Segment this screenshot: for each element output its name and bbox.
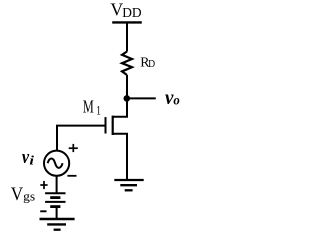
source vi sine wave	[48, 159, 63, 168]
ground below battery Vgs: bottom bar	[54, 229, 61, 231]
wire VDD rail to resistor RD top	[126, 22, 128, 51]
power supply VDD rail bar	[112, 21, 142, 23]
node drain junction dot	[124, 95, 131, 102]
plus sign at vi source top	[69, 147, 78, 149]
battery Vgs plate short bottom	[50, 205, 60, 208]
ground at M1 source: bottom bar	[125, 189, 133, 191]
plus sign at battery Vgs top	[40, 184, 47, 186]
minus sign at vi source bottom	[67, 175, 76, 177]
wire battery Vgs bottom to ground	[56, 207, 58, 219]
wire vi source bottom to battery Vgs	[56, 176, 58, 193]
transistor M1 drain lead	[113, 98, 127, 116]
source vi AC symbol circle	[44, 151, 69, 176]
battery Vgs plate short upper	[50, 196, 60, 199]
ground below battery Vgs: middle bar	[47, 223, 66, 225]
resistor RD	[122, 52, 132, 76]
ground at M1 source: top bar	[114, 179, 143, 181]
transistor M1 channel bar	[112, 116, 114, 135]
battery Vgs plate long lower	[45, 201, 65, 203]
wire resistor RD bottom to drain node	[126, 75, 128, 98]
transistor M1 gate bar	[105, 117, 107, 133]
battery Vgs plate long top	[45, 192, 65, 194]
wire drain node to output vo	[127, 97, 156, 99]
ground below battery Vgs: top bar	[40, 218, 75, 220]
wire gate lead from source vi to M1 gate	[57, 126, 106, 151]
transistor M1 source lead	[113, 134, 127, 180]
ground at M1 source: middle bar	[120, 184, 137, 186]
minus sign at battery Vgs bottom	[40, 210, 46, 212]
